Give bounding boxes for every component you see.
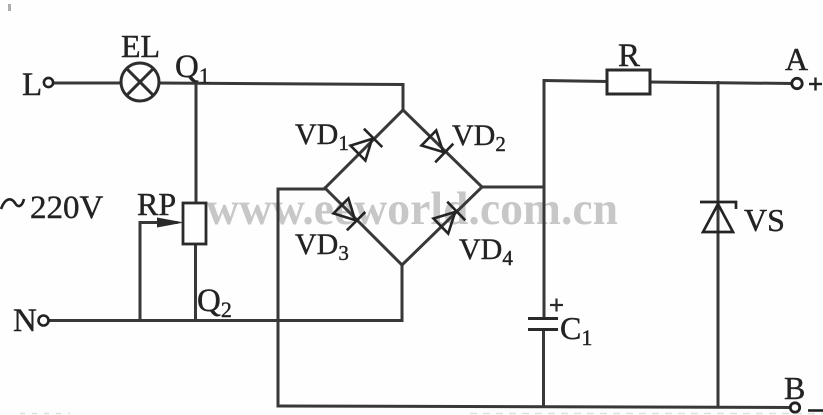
diode VD1 <box>351 129 383 161</box>
wire right vertical: top wire down to C1 <box>543 81 546 319</box>
terminal L <box>44 78 53 87</box>
polarity + at A <box>809 78 822 91</box>
wire bridge edge bottom-left <box>325 188 402 265</box>
svg-text:Q2: Q2 <box>197 283 232 322</box>
C1 polarity + <box>550 299 563 312</box>
wire L to lamp <box>53 82 122 85</box>
capacitor C1 <box>528 319 558 330</box>
diode VD4 <box>434 202 466 234</box>
wire RP bottom to N rail <box>194 244 197 320</box>
wire bridge right corner stub <box>482 186 544 189</box>
wire bottom rail to terminal B <box>278 406 791 408</box>
svg-text:L: L <box>22 67 42 103</box>
wire bridge edge top-left <box>325 110 403 188</box>
svg-text:Q1: Q1 <box>175 49 210 88</box>
svg-text:VD2: VD2 <box>452 119 506 156</box>
svg-text:VD1: VD1 <box>295 118 349 155</box>
svg-text:RP: RP <box>137 186 176 222</box>
wire lamp to bridge top corner (through node Q1) <box>159 83 404 110</box>
wire left vertical down <box>277 189 280 406</box>
svg-text:VS: VS <box>744 202 785 238</box>
lamp EL <box>121 63 159 101</box>
scan speck top-left <box>8 4 11 11</box>
wire C1 bottom to rail <box>542 330 545 407</box>
wire bridge bottom corner to N rail <box>401 265 404 321</box>
wire R to terminal A <box>650 82 792 84</box>
scan speckles bottom edge <box>20 413 823 415</box>
terminal B <box>790 403 799 412</box>
svg-text:VD4: VD4 <box>459 233 513 270</box>
svg-text:B: B <box>784 370 805 406</box>
wire bridge edge bottom-right <box>402 187 482 265</box>
zener diode VS <box>700 202 736 232</box>
wire wiper down to N rail <box>139 223 142 321</box>
svg-text:N: N <box>13 303 37 339</box>
wire bridge edge top-right <box>403 110 482 187</box>
wire VS branch <box>717 83 720 408</box>
tilde of 220V <box>1 199 24 209</box>
terminal N <box>39 316 49 326</box>
wire bridge left corner stub <box>278 188 325 191</box>
wire N rail <box>49 319 403 322</box>
diode VD3 <box>334 199 366 231</box>
wire top right to resistor R <box>544 81 607 82</box>
resistor R <box>607 70 650 94</box>
svg-text:www.eeworld.com.cn: www.eeworld.com.cn <box>206 183 618 235</box>
potentiometer RP <box>157 203 206 244</box>
svg-text:C1: C1 <box>560 310 592 350</box>
polarity - at B <box>808 409 823 412</box>
svg-text:EL: EL <box>121 28 160 64</box>
svg-text:220V: 220V <box>30 190 104 226</box>
diode VD2 <box>422 131 454 163</box>
terminal A <box>792 78 802 88</box>
wire node Q1 down to RP top <box>195 84 198 203</box>
wire RP wiper arm <box>140 221 176 224</box>
svg-text:R: R <box>618 38 640 74</box>
svg-text:A: A <box>785 41 808 77</box>
